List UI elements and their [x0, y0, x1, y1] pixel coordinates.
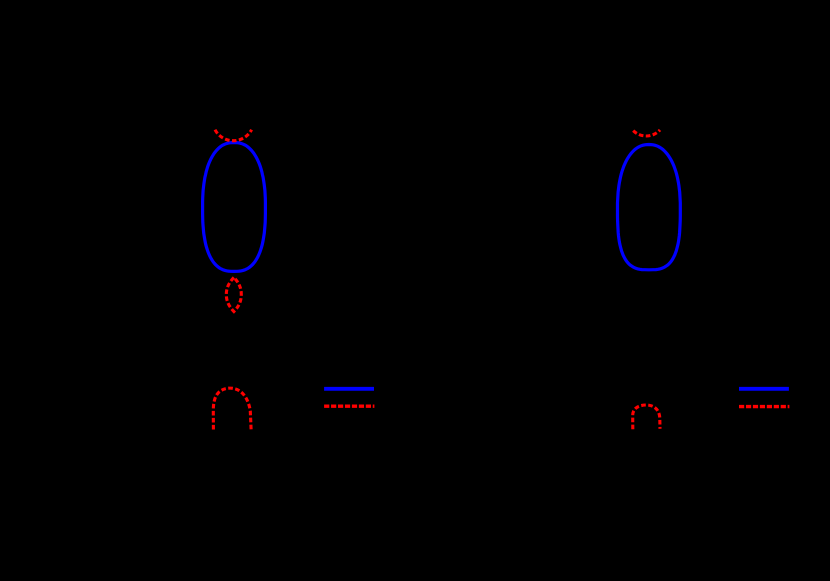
left bottom red dashed dome: [213, 388, 251, 429]
right bottom red dashed dome: [633, 405, 660, 429]
right top red dashed arc: [633, 130, 660, 136]
left legend: red dashed sample line: [324, 405, 374, 408]
left legend: blue solid sample line: [324, 387, 374, 391]
right legend: red dashed sample line: [739, 405, 789, 408]
left blue Fermi pocket (solid ellipse): [203, 143, 266, 272]
left top red dashed arc: [215, 130, 252, 141]
right blue Fermi pocket (solid ellipse): [618, 145, 681, 270]
red dashed lens pocket below left ellipse: [226, 278, 241, 312]
right legend: blue solid sample line: [739, 387, 789, 391]
